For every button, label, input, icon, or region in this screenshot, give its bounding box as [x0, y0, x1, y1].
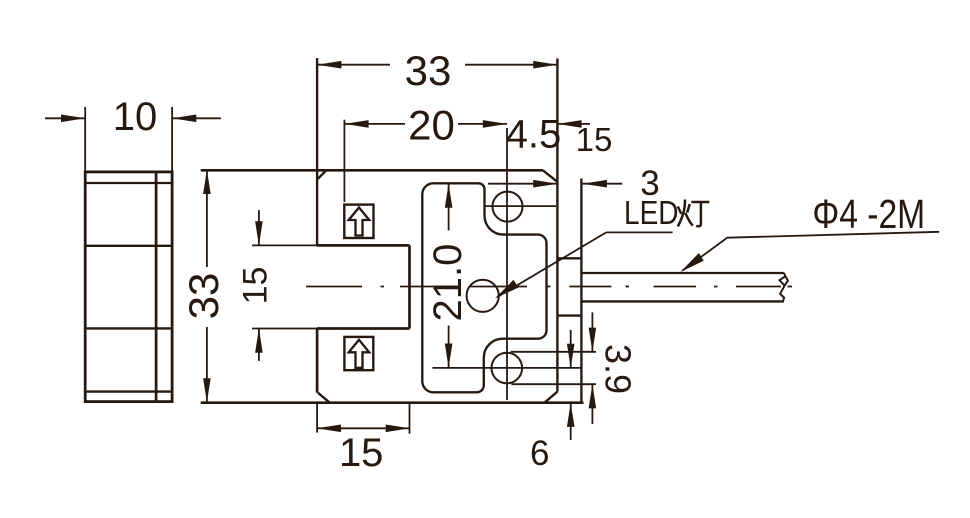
- dimension 33 left bottom arrow: [203, 378, 211, 402]
- arrow box bottom: [344, 337, 373, 370]
- fire radical: left dot: [678, 207, 682, 214]
- dimension 33 top left arrow: [317, 61, 341, 69]
- svg-text:33: 33: [405, 47, 452, 94]
- svg-text:4.5: 4.5: [506, 113, 562, 157]
- LED circle: [467, 280, 499, 312]
- chamfer top-left: [318, 170, 327, 179]
- fire radical: main falling stroke: [678, 200, 685, 227]
- dimension 4.5 right outside arrow: [557, 123, 590, 125]
- svg-text:33: 33: [180, 273, 227, 320]
- dimension 21.0 dim line top segment with up arrow: [448, 184, 450, 231]
- dimension 20 dim line left segment with arrow: [344, 123, 405, 125]
- slot dimension 15 extension line top: [252, 244, 318, 246]
- dimension 10 extension line right: [171, 107, 173, 172]
- svg-text:15: 15: [237, 267, 275, 305]
- fire radical: right dot: [687, 204, 690, 213]
- slot right edge: [408, 245, 411, 328]
- dimension 33 top dim line left segment: [317, 64, 390, 66]
- phi4-2M label leader (underline + diagonal): [683, 232, 940, 271]
- bottom dimension 15 right arrow: [386, 425, 410, 433]
- connector bottom edge: [557, 314, 581, 316]
- vertical center line through holes: [506, 128, 508, 400]
- central body top edge with left extension: [201, 169, 543, 172]
- svg-text:6: 6: [530, 434, 549, 473]
- dimension 33 left vertical dim line bottom segment: [206, 327, 208, 402]
- dimension 10 left arrow: [45, 117, 85, 119]
- central body right edge (with extension up): [556, 59, 558, 392]
- dimension 6 upper tail with down arrow: [570, 330, 572, 368]
- svg-text:20: 20: [408, 102, 455, 149]
- bottom mounting hole: [492, 353, 523, 384]
- slot top edge: [317, 244, 409, 247]
- dimension 3 dim line left piece with arrow: [488, 183, 557, 185]
- horizontal center line (cable axis) dash-dot segments: [306, 286, 792, 288]
- ding: top horizontal: [691, 201, 709, 204]
- central body left edge lower extension below: [316, 403, 318, 433]
- svg-text:Φ4 -2M: Φ4 -2M: [812, 191, 925, 237]
- svg-text:21.0: 21.0: [426, 244, 470, 322]
- cable break symbol: [780, 273, 788, 302]
- chamfer bottom-right: [545, 392, 558, 403]
- central body bottom edge with extensions both sides: [201, 401, 584, 404]
- svg-text:LED: LED: [624, 195, 679, 232]
- ding: vertical hook: [696, 202, 701, 226]
- dimension 3.9 lower tail with up arrow: [591, 384, 593, 424]
- slot bottom edge: [317, 327, 409, 330]
- dimension 3.9 upper tail with down arrow: [591, 312, 593, 351]
- bottom dimension 15 dim line: [317, 427, 410, 429]
- bottom dimension 15 left arrow: [317, 425, 341, 433]
- right mounting plate edge: [580, 179, 582, 404]
- chamfer bottom-left: [318, 393, 330, 403]
- dimension 33 top right arrow: [533, 61, 557, 69]
- central body left edge upper (with extension up): [316, 58, 318, 245]
- connector top edge: [557, 257, 581, 259]
- hole tangent extension line H3: [511, 383, 596, 385]
- dimension 20 dim line right segment with arrow: [458, 123, 507, 125]
- dimension 21.0 dim line bottom segment with down arrow: [448, 326, 450, 368]
- dimension 10 right arrow: [172, 117, 221, 119]
- hole center extension line H2: [432, 367, 582, 369]
- left view inner horizontal line upper-middle: [85, 245, 172, 247]
- arrow glyph bottom: [349, 340, 370, 368]
- dimension 33 left vertical dim line top segment: [206, 170, 208, 267]
- arrow box top: [344, 205, 373, 238]
- slot dimension 15 dim line top with down arrow: [258, 210, 260, 245]
- top mounting hole: [493, 192, 523, 222]
- LED label leader diagonal with arrow: [497, 232, 606, 297]
- dimension 6 lower tail with up arrow: [570, 403, 572, 440]
- top hole horizontal center line: [484, 205, 557, 207]
- slot right edge extension below body: [409, 403, 411, 434]
- CJK glyph deng (lamp) drawn with strokes: [678, 200, 710, 227]
- chamfer top-right: [543, 170, 557, 181]
- dimension 10 extension line left: [84, 107, 86, 172]
- svg-text:15: 15: [339, 431, 384, 475]
- svg-text:15: 15: [576, 121, 613, 158]
- hole tangent extension line H1: [511, 351, 596, 353]
- left side view outer rectangle: [85, 172, 172, 402]
- cable top line: [581, 272, 783, 274]
- LED label leader horizontal: [606, 231, 672, 233]
- central body left edge lower: [316, 329, 319, 393]
- fire radical: right leg: [685, 213, 693, 226]
- svg-text:3.9: 3.9: [598, 344, 639, 394]
- dimension 33 left top arrow: [203, 170, 211, 194]
- slot dimension 15 dim line bottom with up arrow: [258, 329, 260, 361]
- left view inner horizontal line top: [85, 182, 172, 184]
- arrow glyph top: [349, 208, 370, 236]
- cable bottom line: [581, 300, 783, 302]
- svg-text:10: 10: [113, 95, 158, 139]
- left view inner horizontal line bottom: [85, 390, 172, 392]
- dimension 3 dim line right piece with arrow: [583, 183, 623, 185]
- left view inner vertical line: [155, 172, 158, 402]
- dimension 20 extension line: [343, 120, 345, 202]
- left view inner horizontal line lower-middle: [85, 327, 172, 329]
- inner plate contour: [422, 183, 546, 392]
- dimension 33 top dim line right segment: [465, 64, 557, 66]
- slot dimension 15 extension line bottom: [252, 328, 318, 330]
